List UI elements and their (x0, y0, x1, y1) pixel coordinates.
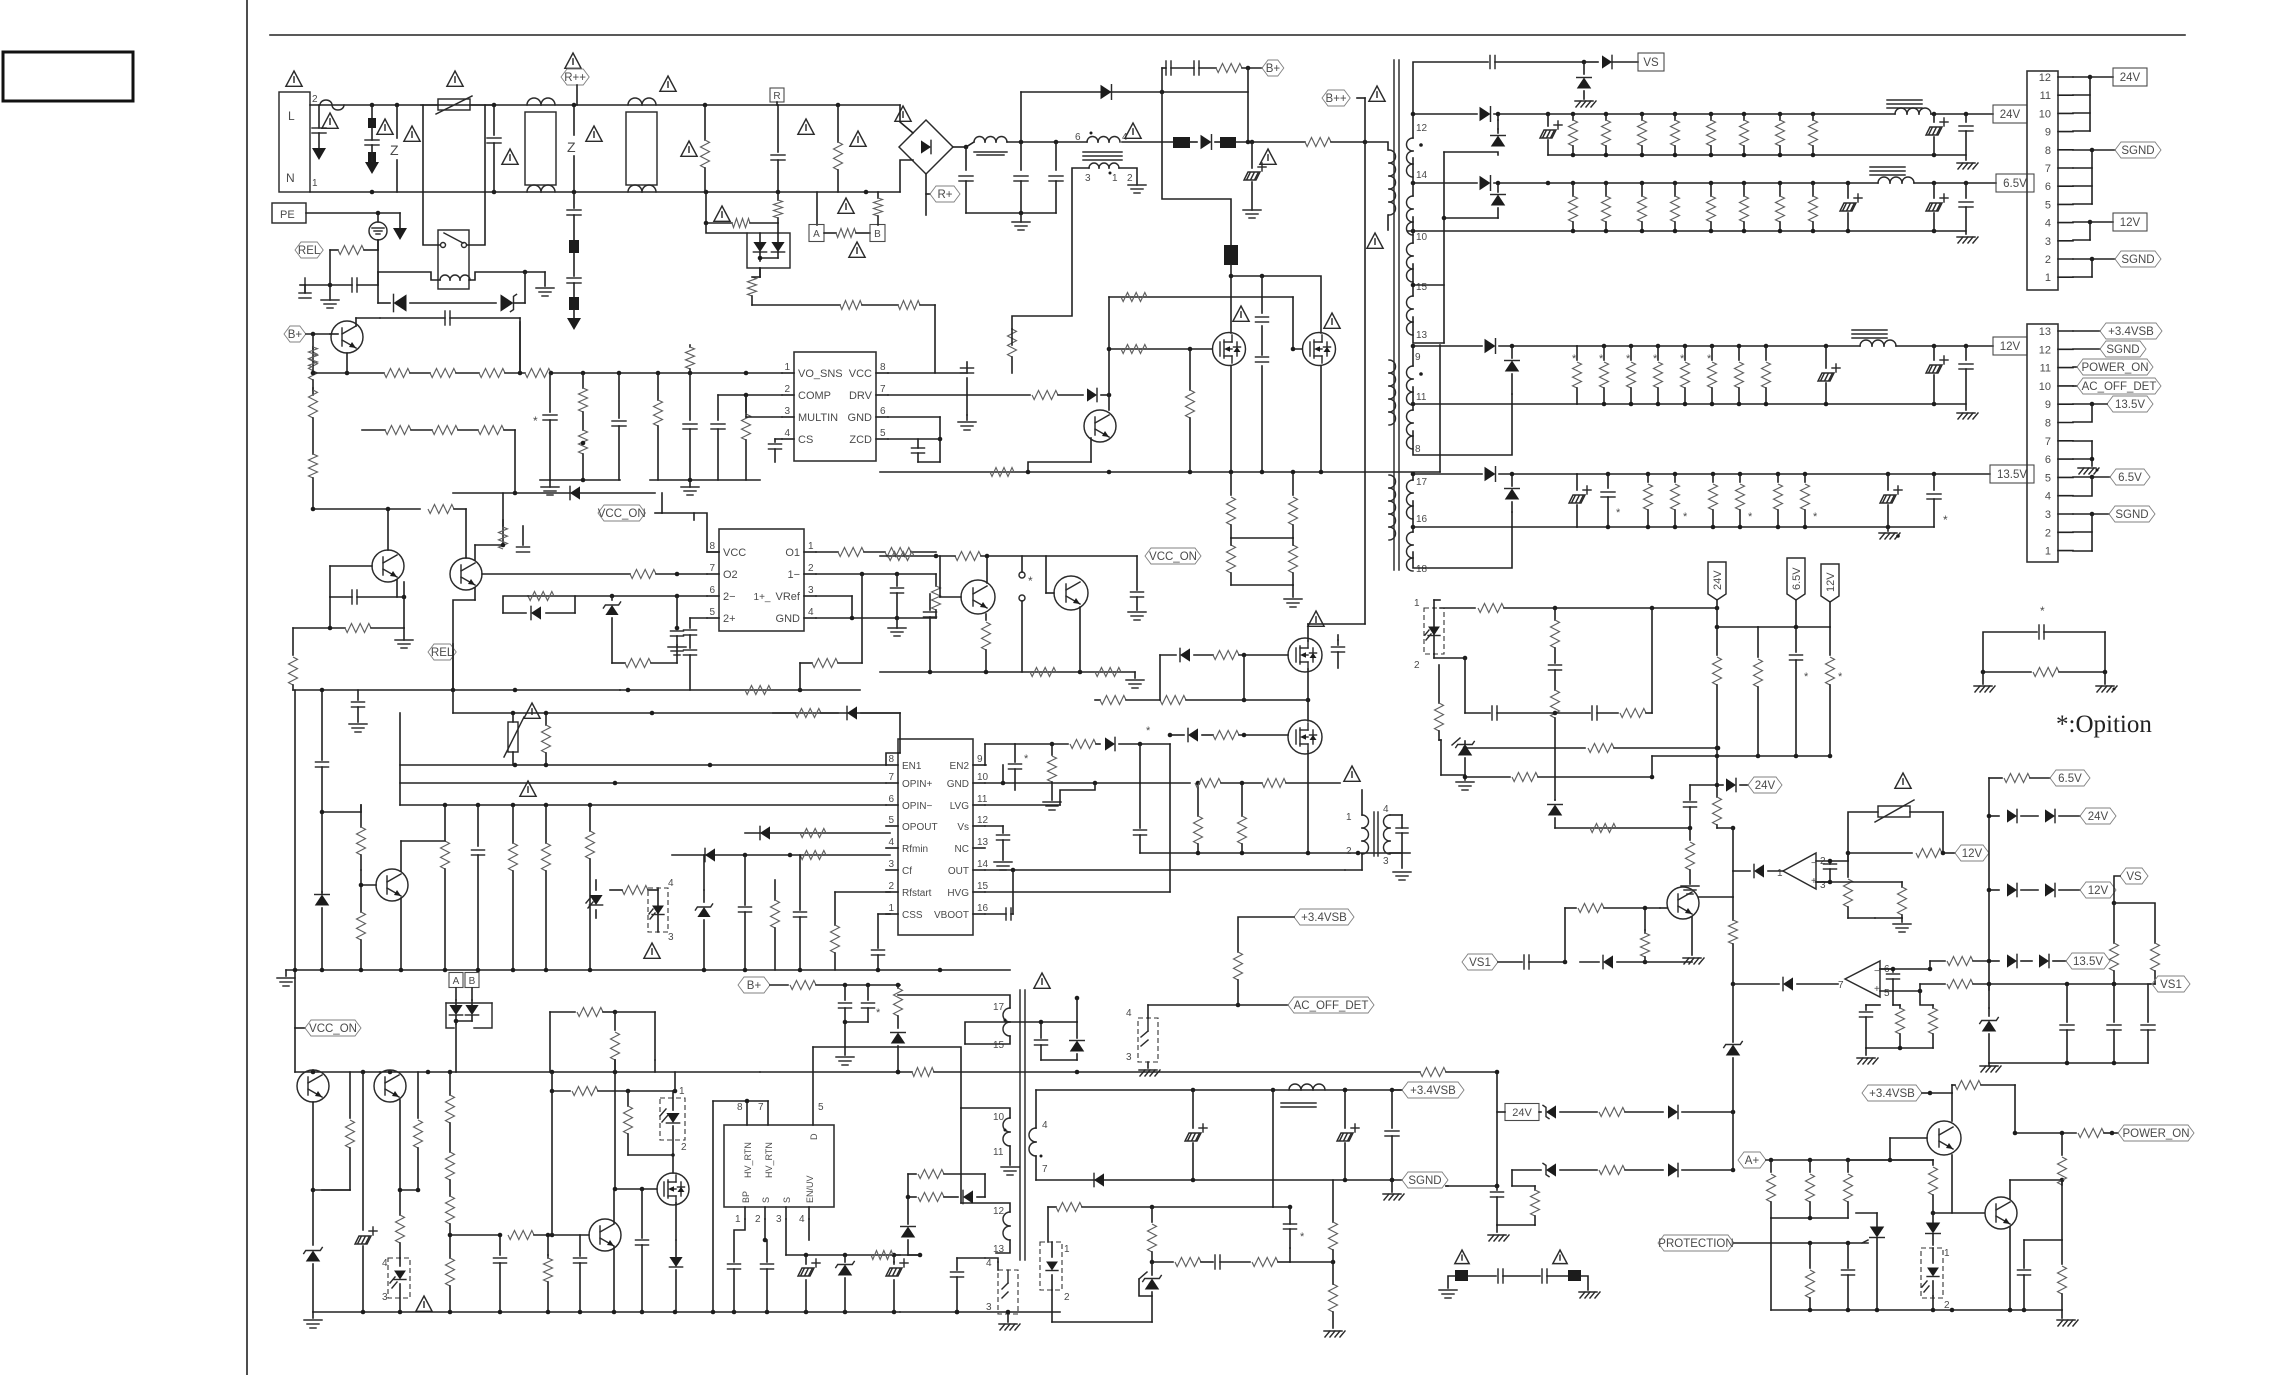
warning triangle (1895, 773, 1911, 788)
ground (24V) (1957, 163, 1978, 169)
ground (u11) (1139, 1070, 1160, 1076)
ferrite bead (1122, 137, 1190, 148)
net flag B+ (284, 326, 306, 342)
wire q7 collector (985, 554, 990, 583)
svg-text:N: N (286, 171, 295, 185)
hvg wire (985, 744, 1170, 892)
rail 1218 (1771, 1216, 1848, 1221)
diode (clamp) (1039, 996, 1085, 1060)
vs pin cap (985, 826, 1012, 870)
capacitor string with beads (365, 105, 379, 162)
CN3 pin 3 (2045, 509, 2073, 521)
diode (847, 706, 900, 753)
net flag VS1 (2152, 976, 2190, 992)
ground (12V) (1957, 413, 1978, 419)
earth symbol (circle) (369, 222, 387, 240)
net flag AC_OFF_DET (1238, 997, 1374, 1013)
wire 2- row (528, 592, 707, 601)
load resistor (24V bank 6) (1740, 114, 1749, 155)
diode (503, 596, 575, 620)
zener (u10) (836, 1255, 855, 1312)
ground (1681, 886, 1699, 894)
svg-text:1−: 1− (787, 569, 800, 581)
wire PE to earth (306, 211, 400, 222)
filter coil (stby) (1281, 1084, 1325, 1107)
gate resistor (1121, 293, 1147, 302)
svg-text:*: * (2040, 604, 2045, 618)
wire q17 emitter (1951, 1155, 1953, 1213)
diode (705, 848, 715, 861)
net flag VS1 (1462, 954, 1498, 970)
svg-text:HVG: HVG (947, 888, 969, 899)
capacitor (6.5V out) (1959, 183, 1973, 234)
svg-text:12: 12 (1416, 123, 1428, 134)
transistor Q18 (1985, 1197, 2017, 1229)
capacitor (494, 1233, 507, 1312)
svg-text:8: 8 (2045, 145, 2051, 157)
capacitor (472, 805, 485, 970)
resistor (po2) (1599, 1166, 1663, 1175)
resistor (544, 1233, 553, 1312)
svg-text:8: 8 (888, 754, 894, 765)
resistor (po out2) (2078, 1129, 2114, 1138)
wire sgnd po (1446, 1184, 1499, 1189)
CN2 pin 7 (2045, 163, 2073, 175)
svg-text:12: 12 (2039, 72, 2051, 84)
svg-text:12V: 12V (2088, 885, 2109, 897)
rail 1255 (786, 1253, 900, 1258)
CN3 pin 8 (2045, 418, 2073, 430)
wire relay coil left (378, 272, 440, 285)
wire Q3 source (1320, 366, 1322, 472)
wire pin5 row (745, 832, 890, 834)
net flag B+ (stby) (738, 977, 770, 993)
svg-text:17: 17 (993, 1002, 1005, 1013)
left vertical bus (399, 713, 401, 805)
svg-text:3: 3 (784, 406, 790, 417)
wire 984 row (1733, 983, 1779, 985)
ct core (1374, 812, 1378, 856)
shunt reg (TL431) (1452, 738, 1474, 775)
resistor (1032, 391, 1083, 400)
svg-text:Rfmin: Rfmin (902, 844, 928, 855)
svg-text:1: 1 (1777, 868, 1783, 879)
capacitor (671, 596, 684, 645)
wire q15 emitter (613, 1247, 615, 1312)
gnd pin10 wire (985, 781, 1140, 786)
wire q8 emitter (1079, 607, 1081, 672)
svg-text:2: 2 (784, 384, 790, 395)
resistor (309, 334, 318, 395)
svg-text:9: 9 (2045, 127, 2051, 139)
warning triangle (1455, 1250, 1469, 1264)
capacitor (891, 574, 904, 618)
zener (po t) (1724, 984, 1743, 1112)
wire q4 base row (330, 566, 372, 597)
svg-text:B+: B+ (747, 980, 762, 992)
wire u6b signals (1880, 967, 1932, 972)
gate resistor (1213, 731, 1288, 740)
diode (570, 486, 580, 499)
svg-text:12V: 12V (1962, 848, 1983, 860)
CN2 pin 12 (2039, 72, 2073, 84)
ground (541, 480, 559, 495)
svg-text:9: 9 (977, 754, 983, 765)
CN2 pin 9 (2045, 127, 2073, 139)
svg-text:11: 11 (2040, 90, 2051, 102)
wire rail right (894, 1253, 922, 1258)
resistor (pull) (1641, 906, 1650, 962)
svg-text:11: 11 (993, 1147, 1004, 1158)
svg-text:15: 15 (1416, 282, 1428, 293)
CN3 pin 1 (2045, 546, 2073, 558)
capacitor (711, 393, 782, 480)
resistor (aux sense) (1008, 329, 1017, 373)
svg-text:Z: Z (390, 142, 399, 158)
wire bridge plus (953, 142, 974, 149)
resistor (gate pulldown) (1194, 781, 1203, 853)
svg-text:OPIN+: OPIN+ (902, 779, 932, 790)
wire drv node up (1107, 297, 1112, 395)
PFC choke L1 (974, 137, 1007, 156)
svg-text:SGND: SGND (2106, 344, 2139, 356)
svg-text:24V: 24V (1512, 1107, 1532, 1119)
svg-text:A: A (453, 976, 460, 987)
svg-text:1: 1 (2045, 546, 2051, 558)
wire 627 row (1715, 608, 1830, 629)
svg-text:*: * (1024, 753, 1029, 765)
elec cap (12V out) (1926, 346, 1948, 404)
wire rail-to-o1res (799, 663, 801, 690)
bleeder resistor (1227, 472, 1236, 538)
svg-text:POWER_ON: POWER_ON (2081, 362, 2148, 374)
svg-text:GND: GND (776, 613, 801, 625)
capacitor (q10) (1332, 635, 1345, 668)
wire q12 emitter (1691, 917, 1693, 955)
en2 wire (985, 744, 1015, 765)
svg-text:3: 3 (1383, 856, 1389, 867)
ground rail under U1 (540, 478, 760, 483)
svg-text:12: 12 (993, 1206, 1005, 1217)
CN3 pin 7 (2045, 436, 2073, 448)
warning triangle (520, 781, 536, 796)
dual comparator U2 (707, 529, 816, 631)
svg-text:6.5V: 6.5V (1791, 567, 1803, 590)
CN2 pin 10 (2039, 108, 2073, 120)
second diode (24V) (1491, 112, 1506, 147)
filter coil (6.5V) (1870, 167, 1996, 185)
ground (681, 480, 699, 495)
net flag +3.4VSB (2073, 323, 2162, 339)
resistor network B+ (550, 1008, 655, 1073)
diode (sgnd) (1094, 1173, 1104, 1186)
earth arrow (393, 213, 407, 240)
wire det left (1148, 1004, 1238, 1006)
diode (fb) (963, 1190, 985, 1203)
svg-text:L: L (288, 109, 295, 123)
capacitor (*) (1273, 1205, 1305, 1248)
net flag 6.5V (2050, 770, 2090, 786)
U10 pin1 (735, 1191, 751, 1225)
ground (1128, 612, 1146, 620)
diode (gate2) (1168, 728, 1213, 741)
comparator U6A (1777, 853, 1826, 891)
load resistor (6.5V bank 1) (1569, 183, 1578, 231)
svg-text:6: 6 (709, 585, 715, 596)
diode (760, 826, 770, 839)
ground (cf) (1857, 1048, 1878, 1064)
12V bottom rail (1577, 402, 1966, 407)
svg-text:D: D (809, 1133, 819, 1140)
svg-text:OPIN−: OPIN− (902, 801, 932, 812)
wire 756 rail (1652, 754, 1832, 777)
wire opto u11 (1147, 1005, 1149, 1068)
capacitor (vs1 f2) (2107, 984, 2121, 1063)
CN2 pin 11 (2040, 90, 2073, 102)
net flag 13.5V (2066, 953, 2110, 969)
resistor (po filt2) (2058, 1240, 2067, 1310)
svg-text:2: 2 (1346, 846, 1352, 857)
output connector CN3 (2027, 324, 2058, 562)
svg-text:5: 5 (880, 428, 886, 439)
svg-text:6: 6 (888, 794, 894, 805)
svg-text:NC: NC (955, 844, 969, 855)
ground (321, 285, 339, 308)
ground (fb) (1324, 1331, 1345, 1337)
wire vcc-on row (453, 491, 655, 496)
diode (bl) (669, 1240, 682, 1312)
svg-text:4: 4 (2045, 218, 2051, 230)
svg-text:3: 3 (2045, 509, 2051, 521)
svg-text:3: 3 (382, 1292, 388, 1303)
svg-text:12: 12 (977, 815, 989, 826)
top rule line (270, 34, 2185, 36)
wire u6b plus (1880, 980, 1989, 994)
load resistor (13.5V bank 3) (1709, 474, 1718, 527)
svg-text:3: 3 (1085, 173, 1091, 184)
svg-text:PROTECTION: PROTECTION (1658, 1238, 1733, 1250)
diode (prot led drive) (1926, 1213, 1941, 1245)
wire left bus2 (321, 812, 323, 892)
svg-text:1+_: 1+_ (754, 592, 771, 603)
diode (vs) (1584, 55, 1638, 68)
rectifier diode (13.5V) (1413, 467, 1577, 482)
resistor (div2) (1816, 882, 1907, 918)
transistor Q17 (po) (1927, 1121, 1961, 1155)
rail 777 (1463, 773, 1655, 782)
load resistor (24V bank 4) (1671, 114, 1680, 155)
svg-text:EN1: EN1 (902, 761, 922, 772)
or diodes 13.5V (1987, 954, 2066, 967)
wire aux vertical (1020, 92, 1022, 142)
resonant controller U3 (886, 739, 989, 935)
svg-text:1: 1 (679, 1086, 685, 1097)
net flag REL (295, 242, 323, 258)
wire po row1 left (1497, 1111, 1505, 1113)
capacitor (839, 985, 852, 1055)
svg-text:*: * (1683, 511, 1688, 523)
resistor (579, 373, 588, 480)
svg-text:Z: Z (567, 139, 576, 155)
svg-text:8: 8 (2045, 418, 2051, 430)
load resistor (6.5V bank 7) (1776, 183, 1785, 231)
capacitor (prot) (1842, 1243, 1855, 1310)
capacitor (739, 855, 752, 970)
wire q5 collector (475, 493, 503, 560)
wire q13 down (311, 1102, 316, 1245)
svg-text:4: 4 (382, 1258, 388, 1269)
warning triangle (404, 126, 420, 141)
capacitor (stby3) (1385, 1088, 1399, 1183)
standby IC U10 (724, 1125, 834, 1207)
load resistor (12V bank 4) (1653, 346, 1663, 404)
PFC MOSFET Q2 (1213, 333, 1246, 366)
svg-text:24V: 24V (1755, 780, 1776, 792)
capacitor (en2) (1009, 744, 1030, 790)
bleeder resistor (1227, 538, 1236, 585)
source rail (1140, 851, 1410, 856)
zener diode (501, 294, 526, 311)
svg-text:*: * (1616, 507, 1621, 519)
svg-text:1: 1 (1346, 812, 1352, 823)
resistor (24V feed) (1440, 604, 1719, 613)
warning triangle (565, 53, 581, 68)
svg-text:4: 4 (799, 1214, 805, 1225)
T3 primary winding (1389, 150, 1396, 540)
capacitor (L to earth) (312, 105, 326, 148)
svg-text:VCC: VCC (849, 368, 872, 380)
second diode (12V) (1505, 344, 1520, 394)
svg-text:1: 1 (1944, 1248, 1950, 1259)
capacitor (vs1 f3) (2141, 984, 2155, 1063)
svg-text:2: 2 (755, 1214, 761, 1225)
13.5V top rail (1577, 472, 1990, 477)
svg-text:7: 7 (888, 772, 894, 783)
title block frame (top-left) (3, 52, 133, 101)
comparator right 1- wire (816, 572, 899, 577)
wire q5 emitter (453, 588, 475, 690)
gnd pin wire (888, 417, 942, 462)
transistor Q13 (297, 1070, 329, 1102)
svg-text:24V: 24V (2000, 109, 2021, 121)
snubber capacitor (1256, 276, 1269, 322)
load resistor (24V bank 7) (1776, 114, 1785, 155)
wire q12 collector (0, 0, 1, 1)
resistor (509, 805, 518, 970)
wire pin8 (1413, 394, 1512, 455)
feedback divider (0, 0, 1, 1)
elec cap (stby1) (1185, 1090, 1207, 1180)
label 24V box (po) (1505, 1104, 1539, 1121)
bleeder resistor (1289, 470, 1298, 538)
svg-text:7: 7 (880, 384, 886, 395)
capacitor (330, 278, 378, 292)
T3 sec winding 10-15 (1407, 217, 1428, 282)
svg-text:7: 7 (709, 563, 715, 574)
label 6.5V box (1996, 174, 2034, 192)
svg-text:SGND: SGND (2121, 145, 2154, 157)
svg-text:6: 6 (880, 406, 886, 417)
ground (y left) (1439, 1276, 1457, 1298)
svg-text:R++: R++ (564, 72, 586, 84)
label A box (449, 973, 463, 1001)
resistor (vcc top) (686, 345, 695, 373)
wire 1225 (1497, 1224, 1535, 1226)
resistor (div1) (1844, 853, 1853, 918)
wire q17 base (1890, 1137, 1927, 1139)
wire relay coil right (469, 270, 545, 303)
24V top rail (1546, 112, 1895, 117)
or diodes 12V (1987, 883, 2080, 896)
svg-text:R+: R+ (937, 189, 952, 201)
resistor (542, 805, 551, 970)
thermistor (comp) (1848, 800, 1943, 853)
zener (prot) (1980, 984, 1999, 1063)
U10 pin3 (776, 1197, 792, 1225)
load resistor (13.5V bank 2) (1671, 474, 1689, 527)
label 12V box (1993, 337, 2027, 355)
svg-text:REL: REL (298, 245, 321, 257)
opto U4 transistor side (648, 888, 668, 932)
wire ct bottom (1345, 854, 1362, 870)
lvg wire (985, 783, 1095, 805)
svg-text:VCC_ON: VCC_ON (309, 1023, 357, 1035)
left bus (vcc-on) (293, 690, 298, 1028)
svg-text:MULTIN: MULTIN (798, 412, 838, 424)
wire a+ rail (1766, 1158, 1933, 1163)
resistor (773, 709, 838, 718)
ground (vs) (1575, 101, 1596, 107)
svg-text:12: 12 (2039, 344, 2051, 356)
option resistor (1981, 668, 2108, 677)
svg-text:11: 11 (977, 794, 988, 805)
dual diode package (446, 1000, 492, 1028)
resistor (499, 520, 508, 549)
elec cap (6.5V out) (1926, 183, 1948, 231)
capacitor (y2) (1542, 1269, 1568, 1283)
earth arrow under cap (312, 148, 326, 160)
vcc cap right of U1 (888, 362, 967, 373)
dual diode D1 (747, 223, 790, 268)
bulk capacitor C (electrolytic) (1244, 142, 1266, 210)
load resistor (24V bank 1) (1569, 114, 1578, 155)
svg-text:SGND: SGND (1408, 1175, 1441, 1187)
gate rail upper (1109, 297, 1302, 351)
svg-text:HV_RTN: HV_RTN (743, 1142, 753, 1178)
svg-text:*: * (1572, 353, 1577, 365)
option capacitor (1983, 604, 2105, 672)
wire left border bus (320, 688, 325, 760)
PE terminal box (272, 203, 306, 223)
net flag +3.4VSB (det) (1294, 909, 1354, 925)
resistor (stby feed) (770, 981, 900, 990)
svg-text:16: 16 (977, 903, 989, 914)
wire opto u7 pins (985, 1258, 1008, 1322)
ground (po rail) (2057, 1310, 2078, 1326)
diode (U6B out) (1783, 977, 1838, 990)
capacitor (13.5V) (1601, 474, 1621, 527)
T4 primary 12-13 (961, 1203, 1010, 1255)
CN3 pin 2 (2045, 527, 2073, 539)
resistor (vs div1) (2110, 943, 2119, 986)
wire coil bypass (0, 0, 1, 1)
resistor (po v) (1512, 1170, 1540, 1225)
net flag SGND (2073, 341, 2146, 357)
transistor Q9 (361, 869, 408, 901)
discharge resistor (834, 105, 867, 192)
comparator right O1 wire (816, 548, 936, 557)
svg-text:4: 4 (986, 1258, 992, 1269)
